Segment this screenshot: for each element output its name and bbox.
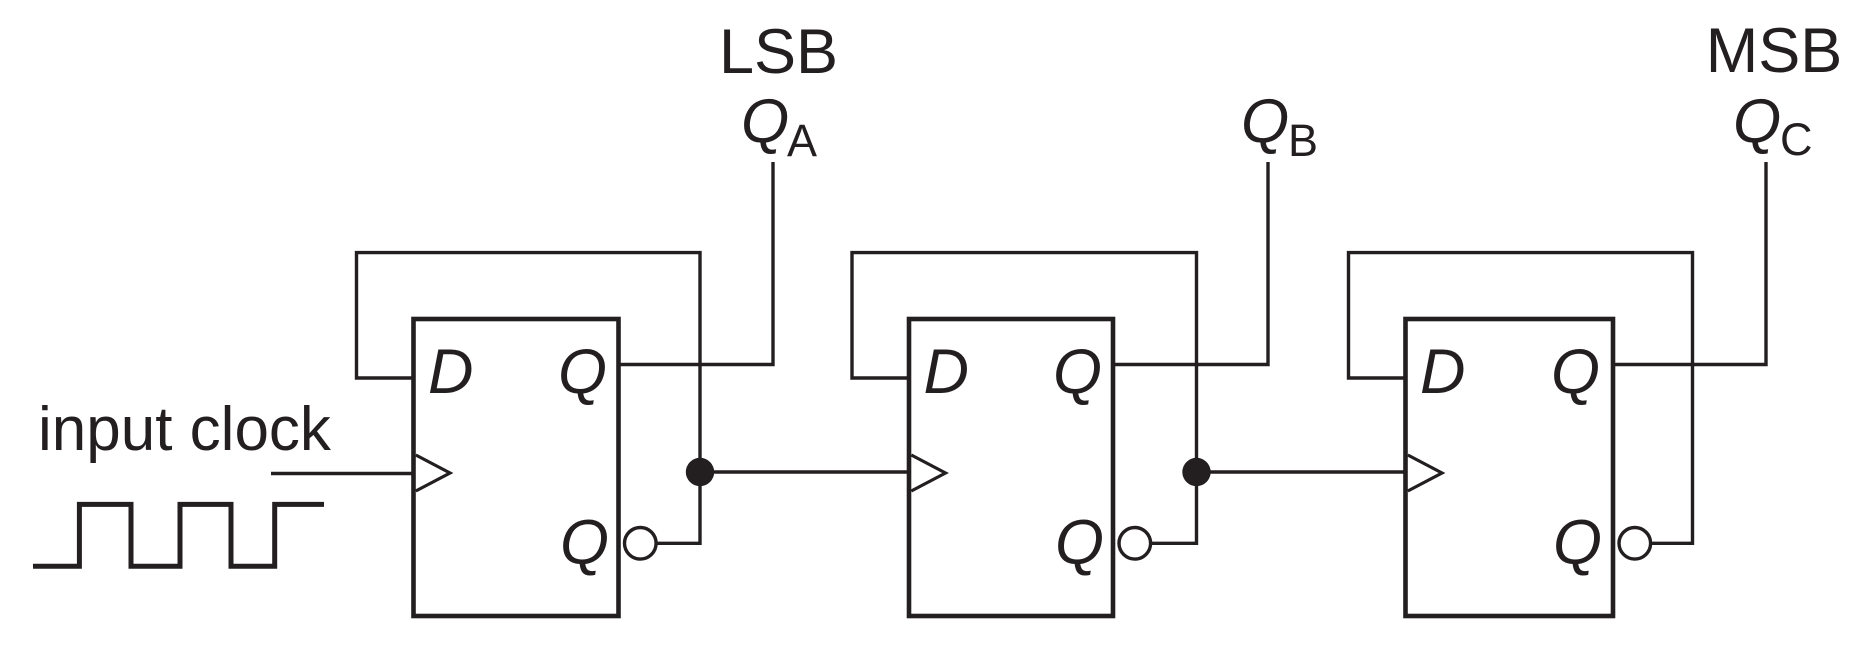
clock edge triangle U3 <box>1408 455 1442 491</box>
flip-flop U2 box <box>909 319 1113 616</box>
wire: input clock to FF1 clock pin <box>271 472 414 475</box>
flip-flop U3 box <box>1406 319 1614 616</box>
wire: FF1 Qbar node to FF2 clock pin <box>700 470 909 473</box>
svg-text:Q: Q <box>1551 337 1600 407</box>
svg-text:Q: Q <box>1053 337 1102 407</box>
inversion bubble U3 Qbar <box>1619 528 1651 560</box>
svg-text:Q: Q <box>1241 87 1289 156</box>
wire: FF1 Q output to QA riser <box>619 162 774 365</box>
svg-text:Q: Q <box>1055 508 1104 578</box>
svg-text:C: C <box>1780 114 1813 165</box>
waveform: input clock square wave <box>33 504 324 566</box>
junction node FF2 Qbar/clock3 <box>1182 458 1210 486</box>
svg-text:D: D <box>1420 337 1466 407</box>
junction node FF1 Qbar/clock2 <box>686 458 714 486</box>
svg-text:Q: Q <box>741 87 789 156</box>
flip-flop U1 box <box>414 319 619 616</box>
wire: FF3 feedback loop Qbar to D <box>1349 253 1693 544</box>
svg-text:MSB: MSB <box>1706 16 1843 86</box>
svg-text:Q: Q <box>558 337 607 407</box>
svg-text:B: B <box>1288 115 1318 166</box>
wire: FF1 feedback loop Qbar to D <box>357 253 701 544</box>
svg-text:LSB: LSB <box>719 17 838 87</box>
svg-text:Q: Q <box>1553 508 1602 578</box>
wire: FF2 feedback loop Qbar to D <box>852 253 1197 544</box>
svg-text:Q: Q <box>1733 87 1781 156</box>
inversion bubble U2 Qbar <box>1119 528 1151 560</box>
svg-text:A: A <box>787 115 817 166</box>
wire: FF2 Qbar node to FF3 clock pin <box>1197 470 1406 473</box>
svg-text:D: D <box>924 337 970 407</box>
svg-text:D: D <box>428 337 474 407</box>
inversion bubble U1 Qbar <box>625 528 657 560</box>
wire: FF2 Q output to QB riser <box>1113 162 1268 365</box>
svg-text:Q: Q <box>560 508 609 578</box>
svg-text:input clock: input clock <box>38 395 332 464</box>
clock edge triangle U2 <box>911 455 945 491</box>
wire: FF3 Q output to QC riser <box>1613 162 1766 365</box>
clock edge triangle U1 <box>416 455 450 491</box>
